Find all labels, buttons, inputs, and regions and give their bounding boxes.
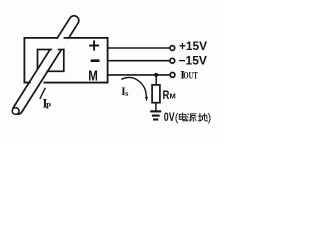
terminal +15V	[170, 46, 175, 51]
wire junction to resistor	[155, 75, 157, 85]
svg-text:M: M	[88, 68, 98, 84]
svg-text:): )	[208, 112, 212, 124]
primary current arrow Ip (shaft)	[40, 88, 46, 99]
secondary current arrow Is (arc)	[121, 77, 146, 97]
wire -15V	[108, 60, 170, 62]
svg-text:M: M	[170, 92, 176, 101]
resistor RM	[152, 85, 160, 103]
sensor housing outline U1 (edges broken by busbar)	[24, 38, 107, 83]
pin label -	[91, 59, 100, 62]
ground symbol	[150, 111, 161, 119]
CJK char di (ground)	[198, 113, 207, 121]
wire +15V	[108, 47, 170, 49]
primary conductor busbar through sensor	[11, 14, 80, 116]
terminal -15V	[170, 58, 175, 63]
core window edge stubs over busbar	[46, 50, 62, 72]
hidden busbar section inside housing	[49, 39, 70, 49]
CJK char yuan (source)	[187, 114, 196, 122]
CJK char dian (electric)	[179, 113, 187, 121]
arrowhead Is	[145, 97, 148, 102]
svg-text:0V: 0V	[164, 110, 175, 124]
svg-text:P: P	[46, 101, 51, 111]
terminal IOUT	[170, 73, 175, 78]
conductor end circle (cross-section)	[12, 108, 19, 115]
pin label +	[89, 40, 99, 50]
svg-text:−15V: −15V	[179, 54, 207, 68]
wire resistor to ground	[155, 103, 157, 112]
junction node	[154, 73, 158, 77]
svg-text:(: (	[175, 112, 179, 124]
svg-text:OUT: OUT	[184, 70, 198, 80]
svg-text:+15V: +15V	[179, 39, 207, 53]
magnetic core window (inner square)	[38, 50, 64, 72]
svg-text:s: s	[125, 89, 128, 98]
wire M to IOUT	[108, 74, 171, 76]
